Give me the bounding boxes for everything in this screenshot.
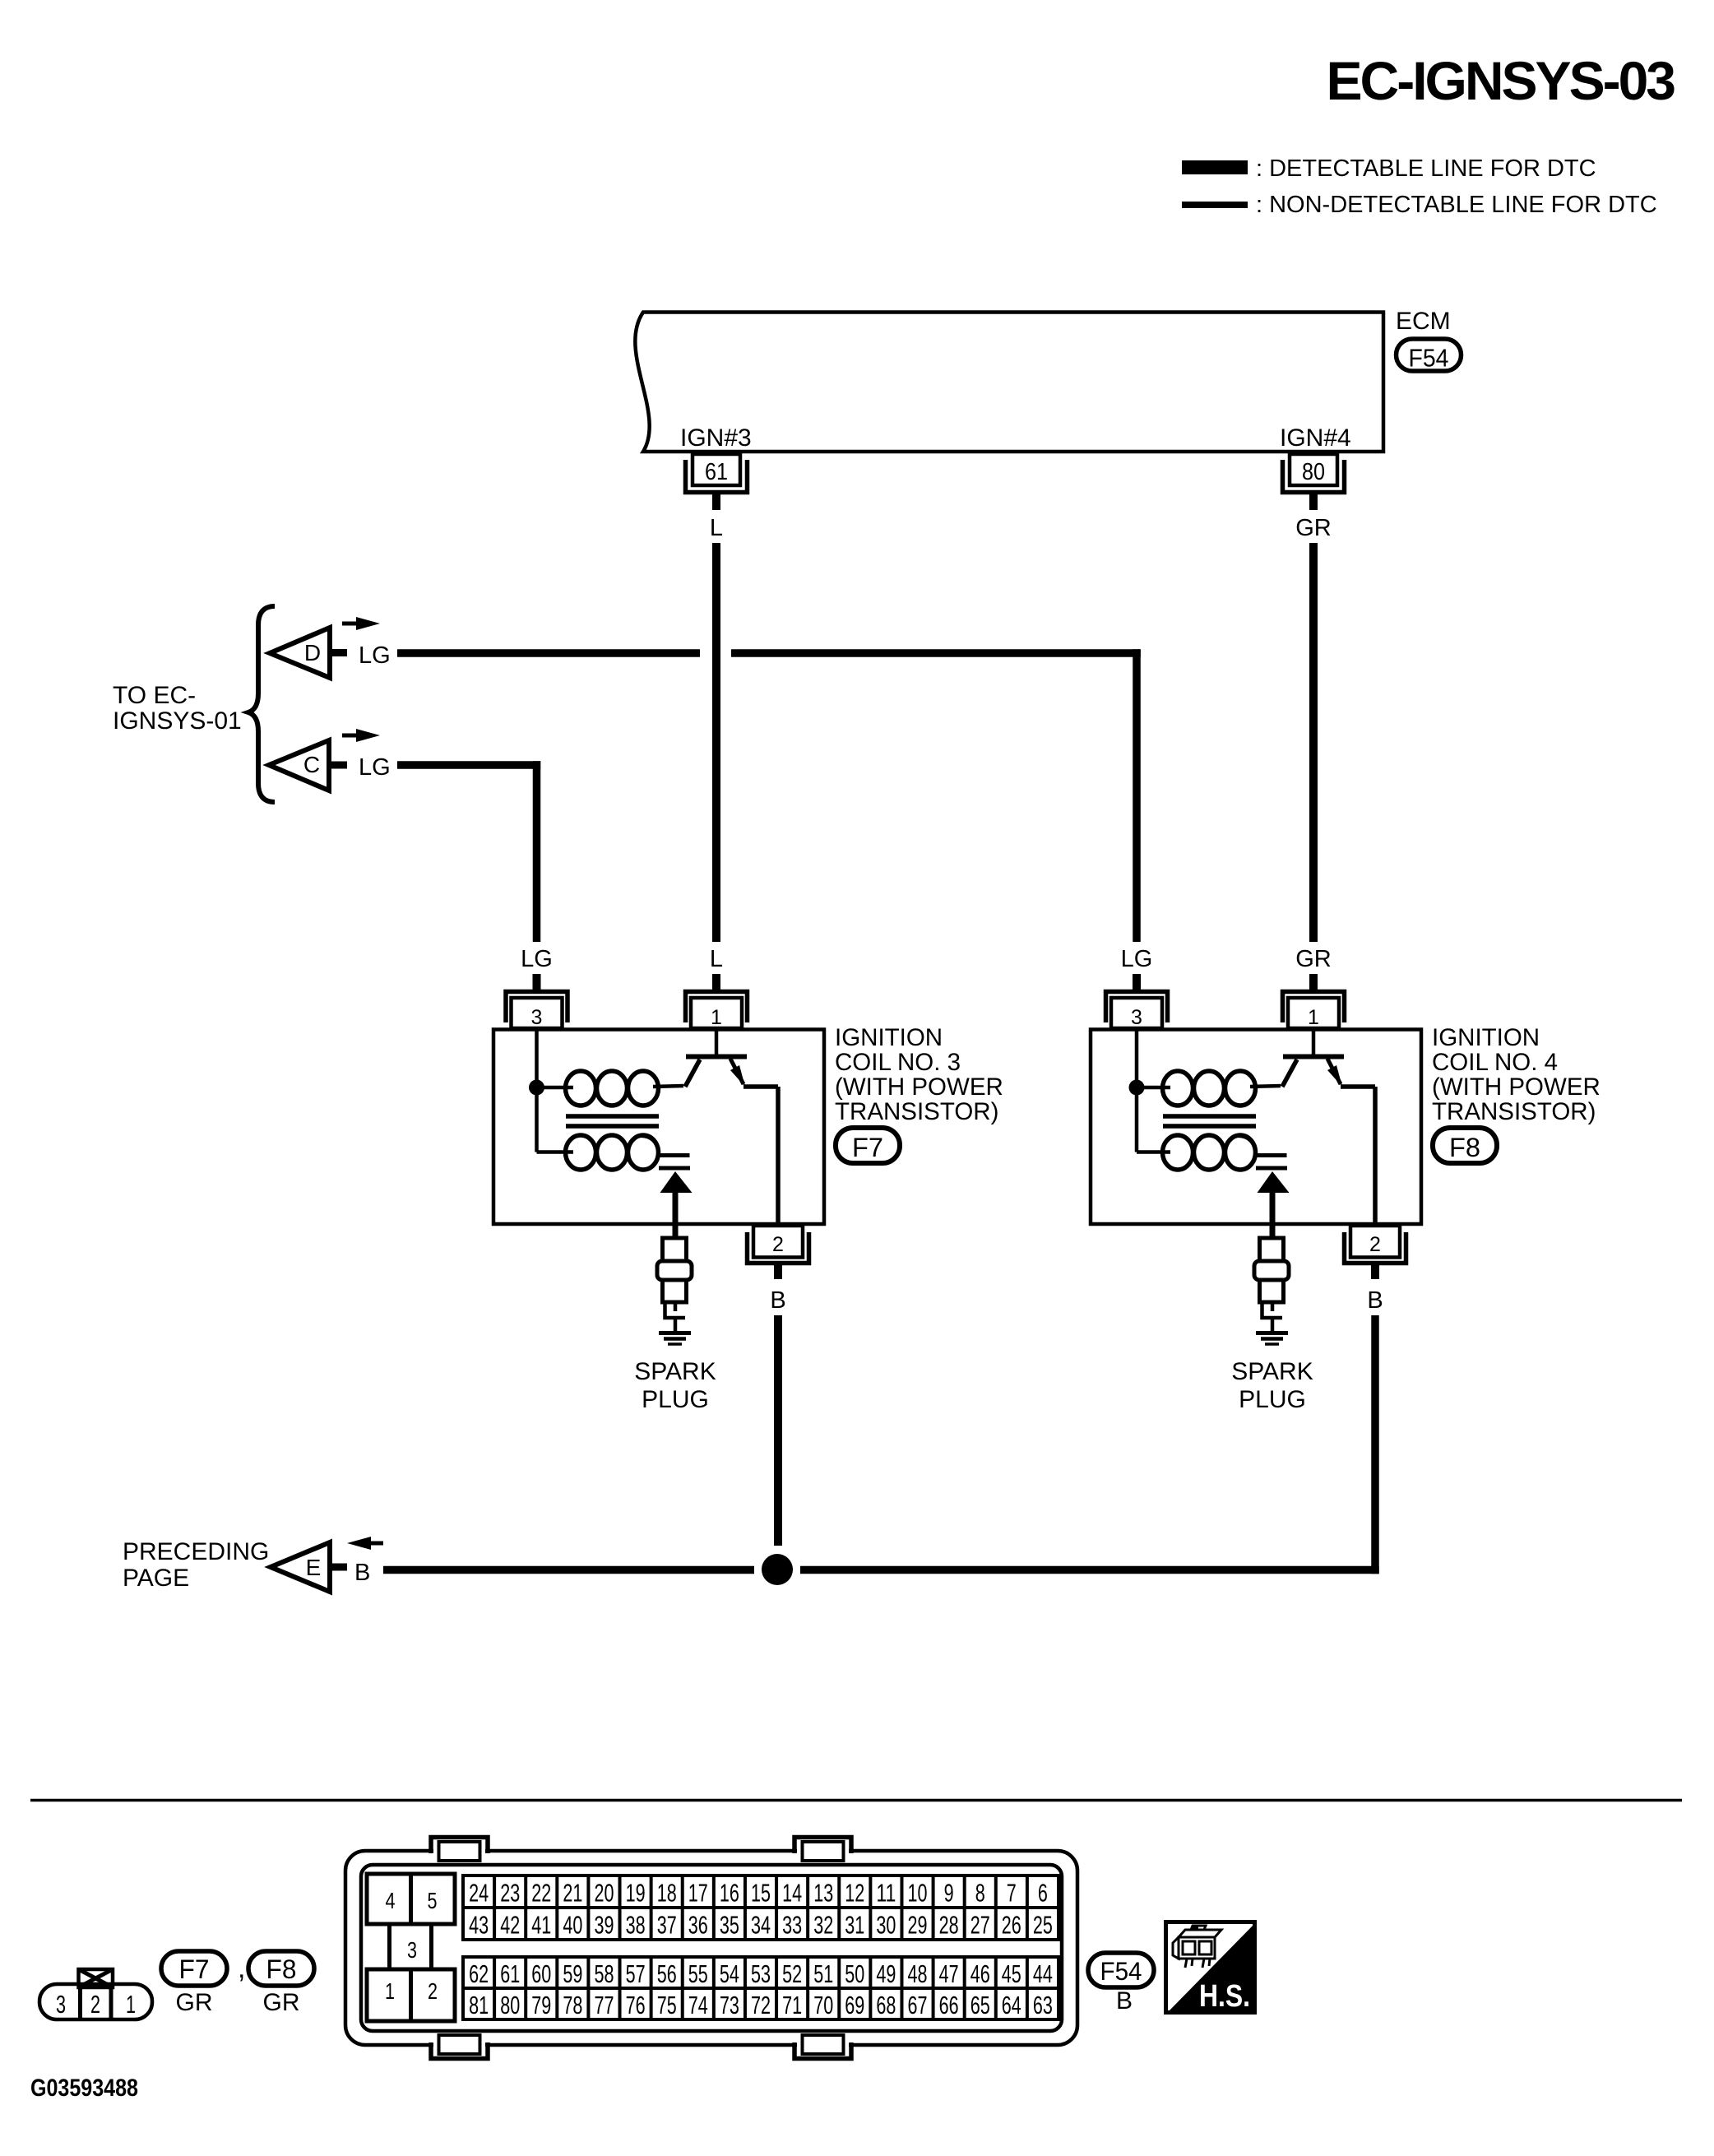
svg-text:F7: F7 <box>852 1133 883 1162</box>
off-page arrow E <box>271 1542 347 1592</box>
svg-text:C: C <box>303 752 320 777</box>
wire label LG (D) <box>359 642 391 669</box>
transformer core (coil 3) <box>566 1116 659 1126</box>
coil 4 pin 2 connector <box>1345 1226 1406 1279</box>
svg-text:46: 46 <box>970 1959 990 1988</box>
legend detectable line text <box>1256 155 1596 182</box>
svg-text:3: 3 <box>56 1990 66 2019</box>
svg-text:38: 38 <box>626 1911 646 1940</box>
svg-text:78: 78 <box>563 1991 582 2019</box>
svg-text:IGN#3: IGN#3 <box>680 424 752 452</box>
svg-text:32: 32 <box>813 1911 833 1940</box>
pin label IGN#4 <box>1280 424 1351 452</box>
spark gap (coil 4) <box>1238 1136 1287 1169</box>
svg-text:PRECEDING: PRECEDING <box>123 1538 269 1565</box>
svg-text:54: 54 <box>720 1959 739 1988</box>
svg-text:22: 22 <box>531 1879 551 1908</box>
svg-text:71: 71 <box>782 1991 802 2019</box>
svg-text:EC-IGNSYS-03: EC-IGNSYS-03 <box>1327 50 1675 111</box>
svg-text:68: 68 <box>876 1991 896 2019</box>
ground (spark plug 3) <box>659 1333 691 1345</box>
coil 3 pin 2 connector <box>748 1226 809 1279</box>
coil 3 pin 1 connector <box>686 974 748 1029</box>
svg-text:GR: GR <box>176 1989 213 2016</box>
coil 3 pin 3 connector <box>506 974 567 1029</box>
svg-text:7: 7 <box>1007 1879 1017 1908</box>
label GR (F7) <box>176 1989 213 2016</box>
svg-text:G03593488: G03593488 <box>30 2075 138 2102</box>
svg-text:59: 59 <box>563 1959 582 1988</box>
svg-text:73: 73 <box>720 1991 739 2019</box>
power transistor Q (coil 4) <box>1282 1030 1375 1223</box>
svg-text:L: L <box>710 515 723 541</box>
svg-text:LG: LG <box>521 946 553 972</box>
svg-text:24: 24 <box>469 1879 489 1908</box>
ECM label <box>1396 308 1451 335</box>
ECM connector shell <box>345 1851 1077 2045</box>
connector tab (top) <box>431 1838 488 1862</box>
svg-text:11: 11 <box>876 1879 896 1908</box>
svg-text:61: 61 <box>705 459 728 485</box>
svg-text:45: 45 <box>1002 1959 1021 1988</box>
svg-text:76: 76 <box>626 1991 646 2019</box>
svg-text:21: 21 <box>563 1879 582 1908</box>
connector F54 oval (ECM) <box>1397 339 1462 373</box>
svg-text:8: 8 <box>975 1879 985 1908</box>
svg-text:79: 79 <box>531 1991 551 2019</box>
H.S. connector icon <box>1173 1926 1221 1968</box>
svg-text:42: 42 <box>500 1911 520 1940</box>
svg-text:74: 74 <box>688 1991 708 2019</box>
annotation ignition coil no. 4 <box>1432 1024 1601 1125</box>
coil 4 pin 1 connector <box>1283 974 1345 1029</box>
label PRECEDING PAGE <box>123 1538 269 1592</box>
connector F54 oval (bottom) <box>1088 1953 1154 1987</box>
svg-text:70: 70 <box>813 1991 833 2019</box>
svg-text:64: 64 <box>1002 1991 1021 2019</box>
svg-text:27: 27 <box>970 1911 990 1940</box>
svg-text:IGNITION: IGNITION <box>1432 1024 1540 1051</box>
spark output arrow (coil 4) <box>1258 1171 1290 1238</box>
svg-text:34: 34 <box>751 1911 771 1940</box>
legend non-detectable line swatch <box>1182 202 1248 208</box>
svg-text:56: 56 <box>657 1959 677 1988</box>
coil 4 pin 3 connector <box>1106 974 1168 1029</box>
svg-text:67: 67 <box>908 1991 928 2019</box>
svg-text:(WITH POWER: (WITH POWER <box>1432 1073 1601 1101</box>
svg-text:77: 77 <box>595 1991 614 2019</box>
svg-text:17: 17 <box>688 1879 708 1908</box>
svg-text:72: 72 <box>751 1991 771 2019</box>
spark plug (coil 4) <box>1254 1238 1289 1332</box>
svg-text:GR: GR <box>1295 515 1332 541</box>
svg-text:19: 19 <box>626 1879 646 1908</box>
wire label L (coil 3 pin 1) <box>710 946 723 972</box>
wire label B (E) <box>354 1560 370 1586</box>
label TO EC-IGNSYS-01 <box>113 682 242 735</box>
svg-text:COIL NO. 4: COIL NO. 4 <box>1432 1049 1558 1076</box>
svg-text:65: 65 <box>970 1991 990 2019</box>
wire pin3 internal (coil 4) <box>1137 1030 1170 1152</box>
svg-text:5: 5 <box>428 1888 438 1913</box>
svg-text:12: 12 <box>845 1879 864 1908</box>
wire B (coil 4) down <box>1371 1315 1379 1574</box>
svg-text:39: 39 <box>595 1911 614 1940</box>
svg-text:80: 80 <box>500 1991 520 2019</box>
ignition coil no. 3 box <box>493 1030 824 1225</box>
svg-text:TO EC-: TO EC- <box>113 682 196 709</box>
svg-text:: NON-DETECTABLE LINE FOR DTC: : NON-DETECTABLE LINE FOR DTC <box>1256 192 1657 218</box>
svg-text:4: 4 <box>386 1888 396 1913</box>
connector tab (top) <box>794 1838 851 1862</box>
ECM connector pin grid rows 24-6 / 43-25 <box>463 1875 1059 1940</box>
svg-text:26: 26 <box>1002 1911 1021 1940</box>
svg-text:: DETECTABLE LINE FOR DTC: : DETECTABLE LINE FOR DTC <box>1256 155 1596 182</box>
label GR (F8) <box>263 1989 300 2016</box>
svg-text:2: 2 <box>428 1978 438 2004</box>
wire label B (coil 3) <box>770 1287 785 1314</box>
svg-text:53: 53 <box>751 1959 771 1988</box>
svg-text:B: B <box>770 1287 785 1314</box>
label SPARK PLUG (coil 3) <box>634 1358 716 1413</box>
title EC-IGNSYS-03 <box>1327 50 1675 111</box>
ECM pin 80 connector <box>1283 454 1345 510</box>
arrow direction glyph (E) <box>347 1537 383 1550</box>
svg-text:TRANSISTOR): TRANSISTOR) <box>1432 1098 1596 1125</box>
spark gap (coil 3) <box>641 1136 690 1169</box>
svg-text:61: 61 <box>500 1959 520 1988</box>
svg-text:40: 40 <box>563 1911 582 1940</box>
arrow direction glyph (C) <box>342 729 380 742</box>
svg-text:15: 15 <box>751 1879 771 1908</box>
svg-text:IGNSYS-01: IGNSYS-01 <box>113 707 242 735</box>
svg-text:PAGE: PAGE <box>123 1565 189 1592</box>
svg-text:60: 60 <box>531 1959 551 1988</box>
wire label LG (C) <box>359 754 391 781</box>
svg-text:PLUG: PLUG <box>1239 1386 1306 1413</box>
svg-text:LG: LG <box>1121 946 1153 972</box>
wire label LG (coil 4 pin 3) <box>1121 946 1153 972</box>
small 3-pin connector icon <box>39 1969 152 2019</box>
svg-text:1: 1 <box>1308 1006 1319 1029</box>
svg-text:IGN#4: IGN#4 <box>1280 424 1351 452</box>
connector F7 oval (coil 3) <box>836 1128 900 1163</box>
wire L from pin 61, label L <box>710 515 723 942</box>
svg-text:37: 37 <box>657 1911 677 1940</box>
wire B bus horizontal <box>383 1566 1379 1574</box>
svg-text:B: B <box>1367 1287 1383 1314</box>
svg-text:10: 10 <box>908 1879 928 1908</box>
svg-text:SPARK: SPARK <box>634 1358 716 1385</box>
node junction dot (B bus) <box>762 1554 793 1585</box>
svg-text:69: 69 <box>845 1991 864 2019</box>
node junction dot (coil 3) <box>529 1080 544 1096</box>
brace <box>248 606 275 802</box>
annotation ignition coil no. 3 <box>835 1024 1003 1125</box>
svg-text:,: , <box>238 1953 245 1984</box>
svg-text:16: 16 <box>720 1879 739 1908</box>
spark output arrow (coil 3) <box>660 1171 693 1238</box>
arrow direction glyph (D) <box>342 617 380 630</box>
ECM connector key 3 <box>390 1924 432 1970</box>
svg-text:E: E <box>306 1555 322 1580</box>
svg-text:66: 66 <box>939 1991 959 2019</box>
label SPARK PLUG (coil 4) <box>1231 1358 1313 1413</box>
svg-text:55: 55 <box>688 1959 708 1988</box>
svg-text:29: 29 <box>908 1911 928 1940</box>
svg-text:1: 1 <box>385 1978 395 2004</box>
wire label GR (coil 4 pin 1) <box>1295 946 1332 972</box>
secondary winding (coil 4) <box>1163 1135 1256 1170</box>
wire label LG (coil 3 pin 3) <box>521 946 553 972</box>
svg-text:2: 2 <box>1369 1233 1381 1256</box>
svg-text:PLUG: PLUG <box>642 1386 709 1413</box>
ground (spark plug 4) <box>1256 1333 1288 1345</box>
wire C LG vertical to coil 3 pin 3 <box>533 761 541 942</box>
wire pin3 internal (coil 3) <box>537 1030 574 1152</box>
figure number G03593488 <box>30 2075 138 2102</box>
svg-text:75: 75 <box>657 1991 677 2019</box>
svg-text:GR: GR <box>1295 946 1332 972</box>
primary winding (coil 3) <box>566 1071 684 1106</box>
svg-text:36: 36 <box>688 1911 708 1940</box>
svg-text:F8: F8 <box>1449 1133 1480 1162</box>
svg-text:58: 58 <box>595 1959 614 1988</box>
ECM connector pin grid rows 62-44 / 81-63 <box>463 1957 1059 2019</box>
connector F7 oval (bottom) <box>161 1951 227 1986</box>
svg-text:B: B <box>354 1560 370 1586</box>
label B (F54) <box>1116 1987 1133 2015</box>
svg-text:D: D <box>304 640 321 665</box>
svg-text:51: 51 <box>813 1959 833 1988</box>
connector tab (bottom) <box>794 2035 851 2059</box>
svg-text:3: 3 <box>1131 1006 1142 1029</box>
svg-text:25: 25 <box>1033 1911 1053 1940</box>
svg-text:2: 2 <box>772 1233 784 1256</box>
svg-text:63: 63 <box>1033 1991 1053 2019</box>
svg-text:62: 62 <box>469 1959 489 1988</box>
connector tab (bottom) <box>431 2035 488 2059</box>
svg-text:14: 14 <box>782 1879 802 1908</box>
ECM box U1 <box>635 313 1383 452</box>
svg-text:43: 43 <box>469 1911 489 1940</box>
svg-text:47: 47 <box>939 1959 959 1988</box>
legend non-detectable line text <box>1256 192 1657 218</box>
node junction dot (coil 4) <box>1129 1080 1145 1096</box>
svg-text:44: 44 <box>1033 1959 1053 1988</box>
svg-text:52: 52 <box>782 1959 802 1988</box>
secondary winding (coil 3) <box>566 1135 659 1170</box>
off-page arrow D <box>270 628 347 678</box>
ECM pin 61 connector <box>686 454 748 510</box>
wire B (coil 3) to junction <box>774 1315 782 1546</box>
svg-text:48: 48 <box>908 1959 928 1988</box>
svg-text:LG: LG <box>359 754 391 781</box>
pin label IGN#3 <box>680 424 752 452</box>
svg-text:9: 9 <box>944 1879 954 1908</box>
connector F8 oval (coil 4) <box>1433 1128 1497 1163</box>
separator line <box>30 1799 1682 1802</box>
primary winding (coil 4) <box>1163 1071 1281 1106</box>
svg-text:6: 6 <box>1038 1879 1048 1908</box>
ECM connector cavities 4 and 5 <box>367 1874 455 1924</box>
H.S. mark <box>1166 1922 1255 2015</box>
svg-text:35: 35 <box>720 1911 739 1940</box>
power transistor Q (coil 3) <box>685 1030 778 1223</box>
svg-text:50: 50 <box>845 1959 864 1988</box>
spark plug (coil 3) <box>657 1238 692 1332</box>
svg-text:18: 18 <box>657 1879 677 1908</box>
svg-text:3: 3 <box>407 1937 417 1963</box>
comma <box>238 1953 245 1984</box>
svg-text:49: 49 <box>876 1959 896 1988</box>
svg-text:IGNITION: IGNITION <box>835 1024 943 1051</box>
svg-text:20: 20 <box>595 1879 614 1908</box>
ignition coil no. 4 box <box>1091 1030 1421 1225</box>
transformer core (coil 4) <box>1163 1116 1256 1126</box>
svg-text:COIL NO. 3: COIL NO. 3 <box>835 1049 961 1076</box>
connector F8 oval (bottom) <box>248 1951 314 1986</box>
svg-text:28: 28 <box>939 1911 959 1940</box>
svg-text:ECM: ECM <box>1396 308 1451 335</box>
svg-text:57: 57 <box>626 1959 646 1988</box>
svg-text:2: 2 <box>90 1990 100 2019</box>
off-page arrow C <box>269 740 347 791</box>
svg-text:13: 13 <box>813 1879 833 1908</box>
svg-text:TRANSISTOR): TRANSISTOR) <box>835 1098 998 1125</box>
svg-text:L: L <box>710 946 723 972</box>
svg-text:33: 33 <box>782 1911 802 1940</box>
svg-text:H.S.: H.S. <box>1199 1979 1250 2014</box>
wire GR from pin 80, label GR <box>1295 515 1332 942</box>
svg-text:F8: F8 <box>266 1954 297 1984</box>
svg-text:80: 80 <box>1302 459 1325 485</box>
svg-text:1: 1 <box>126 1990 136 2019</box>
svg-text:SPARK: SPARK <box>1231 1358 1313 1385</box>
svg-text:1: 1 <box>711 1006 722 1029</box>
svg-text:F7: F7 <box>179 1954 210 1984</box>
wire C LG horizontal <box>397 761 540 769</box>
wire D LG horizontal <box>397 649 1141 657</box>
ECM connector cavities 1 and 2 <box>367 1969 455 2021</box>
svg-text:41: 41 <box>531 1911 551 1940</box>
wire D LG vertical to coil 4 pin 3 <box>1133 649 1141 942</box>
svg-text:B: B <box>1116 1987 1133 2015</box>
svg-text:(WITH POWER: (WITH POWER <box>835 1073 1003 1101</box>
wire label B (coil 4) <box>1367 1287 1383 1314</box>
legend detectable line swatch <box>1182 160 1248 174</box>
svg-text:LG: LG <box>359 642 391 669</box>
svg-text:3: 3 <box>531 1006 543 1029</box>
svg-text:F54: F54 <box>1100 1956 1142 1986</box>
svg-text:F54: F54 <box>1409 344 1449 373</box>
svg-text:GR: GR <box>263 1989 300 2016</box>
svg-text:31: 31 <box>845 1911 864 1940</box>
svg-text:30: 30 <box>876 1911 896 1940</box>
svg-text:81: 81 <box>469 1991 489 2019</box>
svg-text:23: 23 <box>500 1879 520 1908</box>
